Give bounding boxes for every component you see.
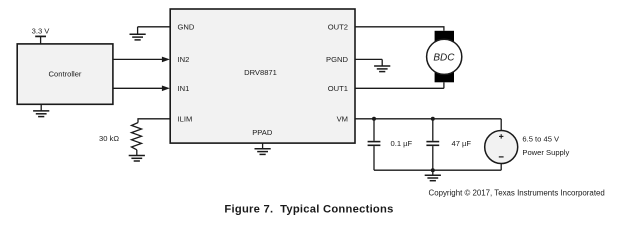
- junction (C1/VM): [372, 117, 376, 121]
- power supply PS1: [485, 119, 518, 170]
- svg-text:Controller: Controller: [49, 69, 82, 78]
- wire motor to OUT1: [443, 82, 445, 88]
- svg-text:IN1: IN1: [178, 84, 190, 93]
- svg-text:3.3 V: 3.3 V: [32, 27, 51, 36]
- svg-text:BDC: BDC: [433, 52, 455, 63]
- svg-text:30 kΩ: 30 kΩ: [99, 134, 119, 143]
- ground (R1): [129, 150, 145, 161]
- motor M1 BDC: [427, 31, 462, 83]
- svg-text:47 µF: 47 µF: [452, 139, 472, 148]
- ground (PGND): [374, 59, 390, 71]
- junction (rail/ground): [431, 168, 435, 172]
- wire IN2: [113, 57, 170, 63]
- capacitor C1: [368, 119, 381, 170]
- wire IN1: [113, 86, 170, 92]
- label power supply: [522, 134, 569, 157]
- ground (controller): [33, 104, 49, 116]
- op-chip U1 DRV8871: [170, 9, 355, 143]
- svg-text:ILIM: ILIM: [178, 115, 193, 124]
- wire bottom rail: [374, 169, 501, 171]
- wire PGND: [355, 58, 382, 60]
- capacitor C2: [426, 119, 439, 170]
- controller box: [17, 44, 113, 104]
- svg-text:PGND: PGND: [326, 55, 348, 64]
- junction (C2/VM): [431, 117, 435, 121]
- svg-text:OUT2: OUT2: [328, 23, 348, 32]
- svg-text:6.5 to 45 V: 6.5 to 45 V: [522, 134, 560, 143]
- supply 3.3V: [32, 27, 51, 44]
- svg-text:Copyright © 2017, Texas Instru: Copyright © 2017, Texas Instruments Inco…: [429, 188, 605, 197]
- svg-text:PPAD: PPAD: [252, 128, 273, 137]
- wire OUT1: [355, 87, 444, 89]
- svg-text:OUT1: OUT1: [328, 84, 348, 93]
- svg-text:0.1 µF: 0.1 µF: [391, 139, 413, 148]
- wire VM: [355, 118, 501, 120]
- svg-text:DRV8871: DRV8871: [244, 68, 277, 77]
- svg-text:VM: VM: [337, 115, 348, 124]
- ground (PPAD): [255, 143, 271, 154]
- ground (GND pin): [130, 27, 146, 40]
- wire GND: [138, 26, 171, 28]
- ground (bulk): [425, 170, 441, 181]
- wire OUT2: [355, 27, 444, 31]
- svg-text:GND: GND: [178, 23, 195, 32]
- wire ILIM: [138, 119, 170, 123]
- resistor R1: [132, 123, 142, 150]
- svg-text:Power Supply: Power Supply: [522, 148, 569, 157]
- svg-text:Figure 7. Typical Connections: Figure 7. Typical Connections: [224, 203, 393, 215]
- svg-text:IN2: IN2: [178, 55, 190, 64]
